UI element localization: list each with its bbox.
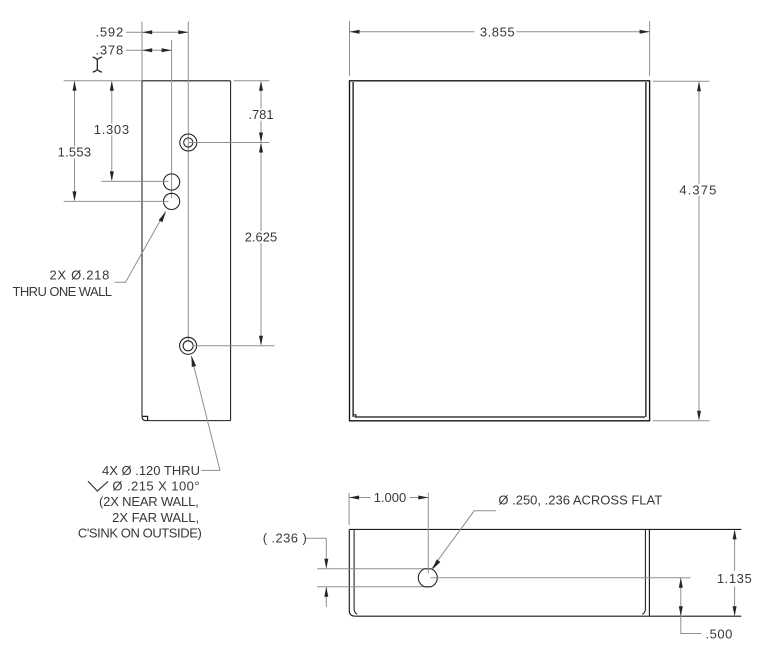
svg-text:( .236 ): ( .236 ) xyxy=(263,530,307,545)
dimension 1.553 xyxy=(74,82,76,200)
svg-text:4X Ø .120 THRU: 4X Ø .120 THRU xyxy=(102,463,200,478)
leader .250 hole xyxy=(432,511,496,569)
svg-text:1.135: 1.135 xyxy=(717,571,753,586)
extension top edge right (front view) xyxy=(653,80,710,82)
svg-text:Ø .250, .236 ACROSS FLAT: Ø .250, .236 ACROSS FLAT xyxy=(498,493,662,508)
dimension 2.625 xyxy=(260,144,262,344)
hole C1 countersunk (4X .120) xyxy=(180,134,197,151)
bottom view left inner wall xyxy=(354,529,357,614)
hole flat upper xyxy=(317,568,425,570)
svg-text:1.000: 1.000 xyxy=(374,490,407,505)
svg-text:.500: .500 xyxy=(706,627,733,642)
countersink symbol xyxy=(88,481,108,491)
svg-text:1.303: 1.303 xyxy=(94,122,130,137)
svg-text:THRU ONE WALL: THRU ONE WALL xyxy=(13,284,112,299)
svg-text:2X Ø.218: 2X Ø.218 xyxy=(49,268,110,283)
I-beam cursor mark xyxy=(93,57,102,72)
dimension 1.135 xyxy=(734,531,736,615)
hole C3 (.218 lower) xyxy=(164,193,180,209)
bottom view left outer edge with bend radius xyxy=(349,529,355,616)
side view bend relief corner xyxy=(142,416,148,420)
double-D hole xyxy=(418,569,437,587)
centerline of 2X holes xyxy=(171,40,173,198)
leader 2X .218 xyxy=(115,211,166,282)
svg-text:Ø .215 X 100°: Ø .215 X 100° xyxy=(112,479,200,494)
svg-text:2.625: 2.625 xyxy=(245,230,278,245)
side view outline xyxy=(142,81,231,421)
centerline of 4X holes xyxy=(187,22,189,342)
extension line lower .218 hole xyxy=(64,200,169,202)
front view inner left wall xyxy=(352,82,354,417)
svg-text:C'SINK ON OUTSIDE): C'SINK ON OUTSIDE) xyxy=(78,526,202,541)
svg-text:4.375: 4.375 xyxy=(679,182,717,197)
extension line hole C1 xyxy=(189,142,270,144)
dimension .378 xyxy=(126,49,172,51)
extension line hole C4 xyxy=(193,345,275,347)
extension line upper .218 hole xyxy=(101,180,168,182)
dimension .500 xyxy=(681,578,702,634)
hole C2 (.218 upper) xyxy=(164,174,180,190)
front view inner bottom wall xyxy=(355,416,646,418)
extension bottom edge right (front view) xyxy=(653,420,710,422)
bottom view bottom edge xyxy=(355,615,741,617)
svg-text:.378: .378 xyxy=(95,43,124,58)
dimension 1.000 xyxy=(349,493,428,574)
dimension 3.855 xyxy=(350,21,650,76)
dimension .781 xyxy=(260,83,262,142)
svg-text:1.553: 1.553 xyxy=(58,145,92,160)
svg-text:3.855: 3.855 xyxy=(480,24,515,39)
extension top edge left (side view) xyxy=(64,80,142,82)
extension line left face (for .592/.378) xyxy=(141,22,143,81)
bottom view top edge xyxy=(349,528,741,530)
dimension 1.303 xyxy=(111,82,113,180)
svg-text:.592: .592 xyxy=(95,25,124,40)
hole C4 countersunk (4X .120 bottom) xyxy=(180,337,197,354)
bottom view right inner wall xyxy=(642,529,645,614)
hole flat lower xyxy=(317,586,425,588)
hole centerline extension xyxy=(431,577,691,579)
dimension 4.375 xyxy=(698,83,700,419)
svg-text:.781: .781 xyxy=(248,107,273,122)
bottom view right outer edge xyxy=(648,529,650,616)
leader 4X .120 xyxy=(191,356,220,470)
front view inner right wall xyxy=(645,82,647,417)
dimension .592 xyxy=(126,31,188,33)
svg-text:(2X NEAR WALL,: (2X NEAR WALL, xyxy=(99,494,199,509)
leader (.236) xyxy=(306,538,326,607)
front view outline xyxy=(350,81,650,421)
front inner corner mark xyxy=(354,415,356,417)
extension top edge right (side view) xyxy=(234,80,270,82)
svg-text:2X FAR WALL,: 2X FAR WALL, xyxy=(112,510,199,525)
